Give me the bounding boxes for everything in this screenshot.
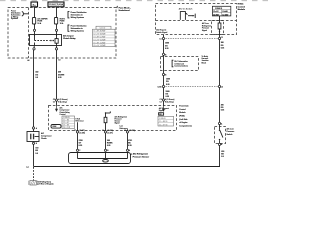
conn id legend table (fuse block) xyxy=(93,26,116,47)
svg-text:C2 = GY 80: C2 = GY 80 xyxy=(159,124,167,126)
pin text A/C request signal xyxy=(159,107,169,112)
resistor R2 internal pullup + A/C low refrigerant pressure signal sub box xyxy=(202,16,224,38)
small tag inside PCM xyxy=(51,125,61,129)
label Fuse Block - Underhood xyxy=(117,6,131,12)
conn id table PCM right xyxy=(158,116,174,126)
inline connector on request wire xyxy=(160,98,175,103)
svg-text:(Left Side: (Left Side xyxy=(179,118,187,121)
A/C request switch signal pin xyxy=(156,29,168,34)
fuse F2 ECM 1 FUSE 15A xyxy=(54,18,65,25)
module U1 powertrain control module (PCM) dashed box xyxy=(49,106,177,131)
svg-text:342: 342 xyxy=(35,71,38,74)
svg-text:A/C Low: A/C Low xyxy=(227,128,235,131)
resistor R1 internal pullup (PCM sensor signal) xyxy=(104,111,110,130)
sensor pin B xyxy=(104,149,106,151)
svg-text:0.35: 0.35 xyxy=(166,96,170,98)
HVAC request wire exit xyxy=(163,35,165,38)
svg-text:0.35: 0.35 xyxy=(166,84,170,86)
relay pin circle top left xyxy=(33,29,35,31)
svg-text:(C-GN): (C-GN) xyxy=(129,130,135,132)
svg-text:0.35: 0.35 xyxy=(128,145,132,147)
wire label 1589 DG 0.35 xyxy=(165,43,169,51)
svg-text:B (C-Gray): B (C-Gray) xyxy=(58,101,67,103)
svg-text:DG/WH: DG/WH xyxy=(58,74,65,76)
fuse F1 A/C CMPSR FUSE 10A xyxy=(32,17,48,25)
svg-text:Wiring Systems: Wiring Systems xyxy=(71,29,84,32)
PCM label xyxy=(179,105,192,128)
connector circle above DLC box xyxy=(162,53,164,55)
wire label 2700 GY 0.35 xyxy=(79,140,83,147)
svg-text:CONN ID: CONN ID xyxy=(63,117,71,119)
svg-text:A/C Refrigerant: A/C Refrigerant xyxy=(133,153,149,156)
svg-text:0.8: 0.8 xyxy=(221,156,224,158)
svg-text:0.35: 0.35 xyxy=(221,110,225,112)
svg-text:Powertrain: Powertrain xyxy=(179,105,188,108)
wire B+ tag to fuse 1 xyxy=(34,7,36,18)
svg-text:57: 57 xyxy=(74,130,76,132)
svg-text:C1=GY: C1=GY xyxy=(213,11,219,13)
PCM bottom pin circles and labels xyxy=(74,130,85,134)
relay K1 A/C compressor clutch relay xyxy=(30,35,62,46)
svg-text:B (C-Gray): B (C-Gray) xyxy=(165,101,174,103)
HVAC conn id table xyxy=(212,6,230,16)
wire label 459 DG/WH 0.35 xyxy=(58,71,65,80)
wire label 380 DG 0.35 xyxy=(221,104,225,111)
svg-text:C1: C1 xyxy=(159,38,161,40)
pin arrow relay control into PCM xyxy=(56,106,58,112)
svg-text:Block: Block xyxy=(202,62,207,64)
relay pin circle bottom right xyxy=(55,48,57,50)
svg-text:46: 46 xyxy=(124,129,126,132)
svg-text:CONN ID: CONN ID xyxy=(159,118,167,120)
clutch L1 A/C compressor clutch coil xyxy=(27,127,39,145)
pin arrow A/C request into PCM xyxy=(163,106,165,112)
dashed drop to ground xyxy=(33,167,35,181)
relay pin circle bottom left xyxy=(33,48,35,50)
svg-text:0.8: 0.8 xyxy=(35,153,38,155)
clutch label xyxy=(41,132,52,140)
page edge tick marks xyxy=(0,0,268,2)
svg-text:Systems: Systems xyxy=(11,17,18,20)
svg-text:A/C On Switch: A/C On Switch xyxy=(179,8,194,11)
svg-text:A/C Cmpsr: A/C Cmpsr xyxy=(63,35,74,38)
wire label 150 BK 0.8 xyxy=(35,148,38,155)
svg-text:C2 = GY: C2 = GY xyxy=(63,122,70,124)
svg-text:0.35: 0.35 xyxy=(58,77,62,79)
wire label 2701 BK 0.35 xyxy=(128,140,132,147)
switch S1 A/C on switch xyxy=(179,8,196,20)
wire RUN/CRANK tag to fuse 2 xyxy=(56,7,58,18)
svg-text:C1: C1 xyxy=(53,101,55,103)
inline connector on relay control wire xyxy=(53,98,68,103)
svg-text:C1: C1 xyxy=(160,101,162,103)
svg-text:(C-GY): (C-GY) xyxy=(107,132,113,134)
connector C210 inline dotted tie xyxy=(157,85,223,88)
DLC reference dashed box xyxy=(161,57,199,71)
wire relay switch output down xyxy=(33,50,35,127)
svg-text:C2: C2 xyxy=(221,87,223,89)
svg-text:C3 = BK: C3 = BK xyxy=(63,125,70,127)
svg-text:Fuse Block -: Fuse Block - xyxy=(119,7,132,9)
svg-text:1589: 1589 xyxy=(166,78,170,80)
svg-text:Communications: Communications xyxy=(174,65,188,68)
wire label 250 BK 0.8 xyxy=(221,151,224,158)
svg-text:Control: Control xyxy=(179,108,186,111)
small tag inside PCM right xyxy=(159,113,164,116)
wire low reference PCM to sensor xyxy=(127,133,129,149)
sensor B1 A/C refrigerant pressure sensor xyxy=(69,153,131,164)
svg-text:Wiring Systems: Wiring Systems xyxy=(71,16,84,19)
HVAC label xyxy=(238,3,246,11)
module U2 HVAC control module dashed box xyxy=(156,4,237,35)
wire label 380 DG 0.35 xyxy=(221,42,225,49)
svg-text:C1: C1 xyxy=(221,37,223,39)
pin text A/C refrigerant pressure sensor signal xyxy=(115,115,128,124)
svg-text:8192: 8192 xyxy=(53,126,57,128)
relay pin circle top right xyxy=(55,29,57,31)
svg-text:459: 459 xyxy=(58,71,61,74)
sensor pin C xyxy=(76,149,78,151)
svg-text:0.35: 0.35 xyxy=(107,145,111,147)
svg-text:Pressure Sensor: Pressure Sensor xyxy=(133,155,150,158)
connector C1 inline dotted tie xyxy=(159,37,223,41)
5 volt reference pin xyxy=(76,118,84,131)
svg-text:C3: C3 xyxy=(58,60,60,62)
svg-text:CONN ID: CONN ID xyxy=(215,8,223,10)
svg-text:Signal: Signal xyxy=(115,123,121,125)
connector circle below DLC box xyxy=(162,73,164,75)
svg-text:0.35: 0.35 xyxy=(165,48,169,50)
sensor label xyxy=(131,153,150,159)
sensor signal wire from HVAC down xyxy=(219,39,221,85)
svg-text:12-WAY: 12-WAY xyxy=(222,13,229,16)
svg-text:Compartment): Compartment) xyxy=(179,124,192,127)
note: left outside power distribution reference xyxy=(11,10,29,20)
sensor pin A xyxy=(126,149,128,151)
svg-text:C1 = BU 80: C1 = BU 80 xyxy=(159,121,167,123)
feed tag box RUN/CRANK xyxy=(48,2,64,7)
wire relay coil down to PCM xyxy=(56,50,58,99)
svg-text:Clutch Relay: Clutch Relay xyxy=(63,37,76,40)
svg-text:C4 = CLR: C4 = CLR xyxy=(63,127,71,129)
svg-text:C1 = BU: C1 = BU xyxy=(63,120,70,122)
conn id table PCM left xyxy=(62,116,75,129)
note: power distribution reference B xyxy=(68,25,87,33)
ground bus wire xyxy=(34,166,221,168)
svg-text:B+: B+ xyxy=(33,4,37,7)
svg-text:Switch Signal: Switch Signal xyxy=(156,31,168,34)
svg-text:C2=BK: C2=BK xyxy=(222,11,228,13)
note: power distribution reference A xyxy=(68,11,87,19)
svg-text:Signal: Signal xyxy=(202,30,208,32)
svg-text:Module: Module xyxy=(238,9,246,11)
wire sensor signal PCM to sensor xyxy=(105,133,107,149)
wire 5V reference PCM to sensor xyxy=(77,133,79,149)
svg-text:of Engine: of Engine xyxy=(179,122,187,124)
svg-text:Control: Control xyxy=(60,113,67,116)
svg-text:14: 14 xyxy=(102,129,104,132)
svg-text:(C-GN): (C-GN) xyxy=(79,132,85,134)
svg-text:0.35: 0.35 xyxy=(221,47,225,49)
svg-text:Reference: Reference xyxy=(76,121,84,123)
svg-text:(LH Rear of Engine): (LH Rear of Engine) xyxy=(38,184,54,186)
svg-text:Module: Module xyxy=(179,112,185,114)
feed tag box B+ xyxy=(31,2,38,7)
ground G107 symbol xyxy=(28,181,53,186)
svg-text:(PCM): (PCM) xyxy=(179,116,185,118)
svg-text:HVAC: HVAC xyxy=(238,3,244,6)
switch S2 A/C low pressure switch xyxy=(215,122,235,146)
svg-text:0.8: 0.8 xyxy=(35,77,38,79)
pin text low reference xyxy=(120,126,128,131)
svg-text:A2: A2 xyxy=(27,59,29,62)
svg-text:1589: 1589 xyxy=(165,43,169,45)
svg-text:Underhood: Underhood xyxy=(119,9,131,12)
svg-text:C210: C210 xyxy=(157,87,161,89)
wire label 380 RD/BK 0.35 xyxy=(107,140,113,147)
svg-text:Switch: Switch xyxy=(227,133,233,136)
svg-text:Control: Control xyxy=(238,5,246,8)
wire label 1589 DG 0.35 xyxy=(166,91,170,98)
svg-text:RUN/CRANK: RUN/CRANK xyxy=(49,4,64,7)
wire fuse2 to relay pin xyxy=(56,24,58,29)
jumper harness note xyxy=(202,56,209,65)
wire fuse1 to relay pin xyxy=(34,24,36,29)
wire label 342 DG 0.8 xyxy=(35,71,38,80)
relay K1 label xyxy=(63,35,76,41)
wire label 1589 DG 0.35 xyxy=(166,78,170,86)
svg-text:0.35: 0.35 xyxy=(79,145,83,147)
pin text A/C compressor clutch relay control xyxy=(60,107,70,116)
svg-text:Clutch: Clutch xyxy=(41,137,47,140)
